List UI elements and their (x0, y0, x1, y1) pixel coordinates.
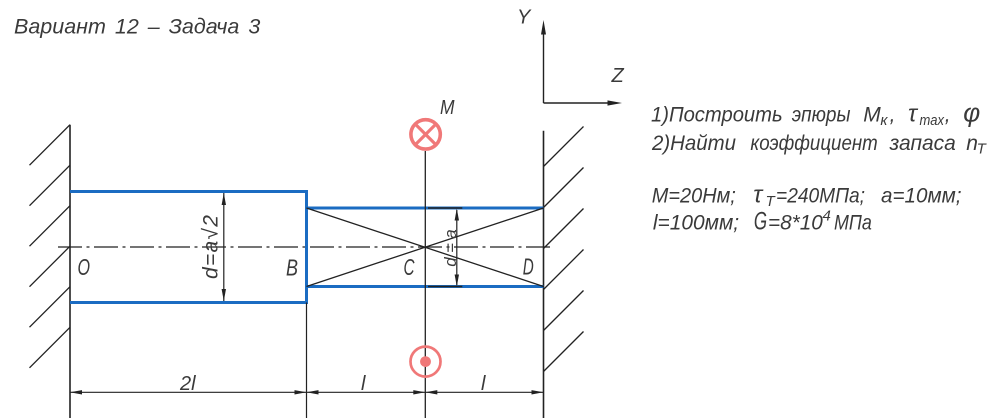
svg-text:М=20Нм;: М=20Нм; (652, 185, 736, 208)
svg-text:коэффициент: коэффициент (750, 132, 877, 155)
svg-text:Y: Y (517, 7, 532, 29)
svg-text:а=10мм;: а=10мм; (881, 185, 962, 208)
svg-text:O: O (78, 254, 91, 280)
svg-text:Т: Т (977, 141, 988, 158)
svg-text:d=a√2: d=a√2 (200, 215, 223, 279)
svg-text:Z: Z (611, 65, 625, 87)
svg-text:,: , (945, 104, 951, 127)
svg-text:D: D (523, 254, 534, 280)
svg-text:C: C (404, 254, 415, 280)
svg-text:l: l (481, 373, 486, 395)
svg-text:τ: τ (753, 182, 764, 209)
svg-text:d=a: d=a (441, 229, 460, 267)
svg-text:=8*10: =8*10 (768, 212, 823, 235)
svg-text:М: М (863, 104, 881, 127)
svg-text:1)Построить: 1)Построить (651, 104, 783, 127)
svg-text:G: G (754, 208, 767, 236)
svg-text:=240МПа;: =240МПа; (776, 185, 865, 208)
svg-text:max: max (920, 112, 945, 129)
svg-text:запаса: запаса (889, 132, 956, 155)
svg-text:M: M (440, 97, 455, 119)
svg-text:к: к (880, 112, 888, 129)
svg-text:l=100мм;: l=100мм; (653, 212, 739, 235)
svg-text:B: B (286, 255, 298, 281)
svg-text:МПа: МПа (834, 212, 872, 235)
svg-text:2)Найти: 2)Найти (651, 132, 736, 155)
svg-text:τ: τ (908, 101, 919, 128)
svg-text:4: 4 (823, 208, 831, 225)
svg-text:Т: Т (766, 193, 777, 210)
svg-text:Вариант 12 – Задача 3: Вариант 12 – Задача 3 (14, 15, 260, 39)
svg-text:l: l (361, 373, 366, 395)
svg-text:2l: 2l (179, 373, 196, 395)
svg-text:эпюры: эпюры (792, 104, 851, 127)
svg-text:φ: φ (963, 98, 980, 128)
svg-text:,: , (890, 104, 896, 127)
